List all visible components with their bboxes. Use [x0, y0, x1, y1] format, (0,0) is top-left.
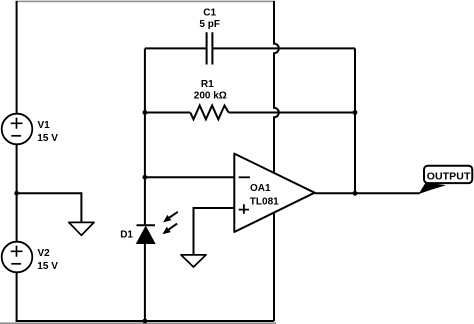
op-amp minus symbol: [239, 176, 250, 178]
node junction inv-input: [143, 175, 148, 180]
ground GND1: [69, 222, 94, 235]
wire bottom rail: [16, 320, 274, 322]
node junction R1-left: [143, 110, 148, 115]
wire non-inverting input: [194, 208, 235, 255]
photodiode arrow 2: [162, 224, 177, 235]
wire output: [315, 192, 420, 194]
output flag box: [424, 166, 472, 183]
op-amp OA1: [234, 154, 314, 232]
diode D1: [137, 225, 156, 243]
svg-text:V2: V2: [38, 248, 51, 259]
svg-text:5 pF: 5 pF: [199, 19, 220, 30]
wire feedback left vertical: [144, 48, 146, 224]
capacitor C1: [207, 32, 213, 64]
node junction output: [353, 191, 358, 196]
wire ground tap: [17, 193, 82, 222]
wire C1 left: [145, 47, 207, 49]
wire op-amp negative supply: [273, 213, 275, 321]
wire top rail: [16, 1, 275, 3]
output flag tail: [419, 182, 446, 194]
svg-text:OUTPUT: OUTPUT: [427, 171, 471, 183]
photodiode arrow 1: [163, 212, 178, 223]
svg-text:C1: C1: [203, 7, 216, 18]
svg-text:200 kΩ: 200 kΩ: [194, 91, 227, 102]
node junction R1-right: [353, 110, 358, 115]
svg-text:TL081: TL081: [250, 197, 279, 208]
wire R1 left lead: [145, 112, 190, 114]
svg-text:15 V: 15 V: [37, 133, 58, 144]
node junction left-ground: [14, 191, 19, 196]
op-amp plus symbol: [239, 204, 249, 214]
wire right vertical (feedback to output): [354, 48, 356, 193]
wire D1 to bottom rail: [144, 244, 146, 322]
svg-text:15 V: 15 V: [37, 261, 58, 272]
wire left rail middle: [16, 144, 18, 241]
svg-text:OA1: OA1: [250, 183, 271, 194]
voltage source V2: [2, 242, 33, 273]
node junction D1-bottom: [143, 319, 148, 324]
bottom gray strip: [0, 322, 276, 324]
resistor R1: [190, 106, 228, 120]
wire R1 right lead: [229, 112, 355, 114]
wire left rail lower: [16, 272, 18, 322]
wire right-top vertical with hops: [274, 1, 279, 173]
svg-text:R1: R1: [201, 79, 214, 90]
svg-text:V1: V1: [38, 120, 51, 131]
wire inverting input: [145, 176, 234, 178]
ground GND2: [181, 255, 206, 267]
voltage source V1: [2, 114, 33, 145]
wire C1 right: [212, 47, 355, 49]
svg-text:D1: D1: [120, 230, 133, 241]
wire left rail upper: [16, 1, 18, 114]
